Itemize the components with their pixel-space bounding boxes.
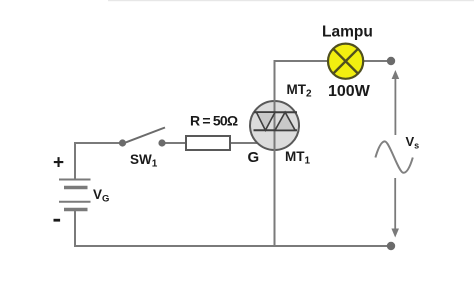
node bottom right: [387, 242, 395, 250]
svg-text:Lampu: Lampu: [322, 24, 373, 41]
wire: bottom horizontal: [74, 245, 391, 247]
triac bottom bar MT1 side: [254, 129, 298, 131]
top border faint line: [108, 0, 474, 1]
arrow up (source top lead): [392, 70, 400, 135]
wire: gate loop top left horizontal: [75, 142, 120, 144]
svg-text:+: +: [53, 153, 64, 174]
wire: top horizontal (corner to lamp): [274, 60, 329, 62]
triac left triangle (down): [256, 112, 275, 130]
wire: main vertical through triac: [274, 61, 276, 246]
lamp cross: [333, 49, 358, 74]
label -: [54, 219, 61, 222]
triac right triangle (up): [275, 112, 295, 130]
svg-text:R = 50Ω: R = 50Ω: [190, 113, 238, 129]
arrow down (source bottom lead): [391, 178, 399, 238]
triac top bar MT2 side: [254, 111, 297, 113]
AC source sine wave: [375, 141, 412, 172]
svg-text:100W: 100W: [328, 83, 371, 100]
resistor R1: [186, 136, 230, 150]
wire: resistor to triac gate: [230, 142, 258, 144]
node top right: [387, 57, 395, 65]
battery VG: [59, 180, 91, 210]
wire: lamp to top node: [364, 60, 391, 62]
switch SW1: [119, 128, 166, 147]
wire: switch to resistor: [163, 142, 186, 144]
wire: left vertical upper (to battery): [74, 142, 76, 180]
triac U1 body: [250, 101, 299, 150]
lamp L1: [328, 44, 363, 79]
wire: left vertical lower (battery to bottom): [74, 209, 76, 247]
svg-text:G: G: [248, 149, 260, 166]
